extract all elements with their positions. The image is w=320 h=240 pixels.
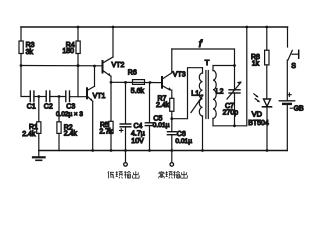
wire C2 to C3 bbox=[50, 96, 66, 98]
wire top rail bbox=[21, 26, 288, 28]
wire emitter row bbox=[111, 81, 162, 83]
node tank top junction bbox=[233, 64, 236, 67]
svg-text:VT2: VT2 bbox=[112, 62, 125, 69]
node R7 bottom / L1 link bbox=[170, 117, 173, 120]
node C4 rail crossing bbox=[124, 149, 127, 152]
svg-text:BT504: BT504 bbox=[248, 120, 269, 127]
wire left border lower bbox=[20, 54, 22, 66]
node L1 rail bbox=[201, 149, 204, 152]
svg-text:GB: GB bbox=[294, 106, 304, 113]
svg-text:0.02µ × 3: 0.02µ × 3 bbox=[56, 111, 83, 118]
battery GB bbox=[279, 93, 304, 151]
wire base row A bbox=[21, 65, 103, 67]
svg-text:3k: 3k bbox=[26, 49, 34, 56]
wire bottom rail bbox=[39, 150, 287, 152]
svg-text:1k: 1k bbox=[252, 61, 260, 68]
wire VT2 collector to rail bbox=[112, 27, 114, 57]
inductor L2 bbox=[213, 71, 224, 119]
resistor R7 bbox=[156, 90, 174, 132]
svg-text:2.4k: 2.4k bbox=[64, 130, 78, 137]
wire C1 to C2 bbox=[34, 96, 45, 98]
node VT1 emitter rail bbox=[91, 149, 94, 152]
switch S bbox=[288, 27, 299, 70]
resistor R6 bbox=[128, 70, 145, 95]
svg-text:270p: 270p bbox=[223, 110, 239, 117]
label high frequency output (Chinese) bbox=[158, 171, 187, 178]
light arrows into VD bbox=[254, 94, 260, 102]
wire VT3 collector up bbox=[171, 49, 173, 73]
transformer core bbox=[206, 71, 208, 119]
node VT2 collector rail bbox=[112, 26, 115, 29]
node VT1 collector junction bbox=[93, 65, 96, 68]
node C4 top bbox=[124, 81, 127, 84]
svg-text:2.4k: 2.4k bbox=[156, 102, 170, 109]
resistor R5 bbox=[99, 121, 113, 150]
svg-text:180: 180 bbox=[62, 48, 74, 55]
node C6 rail crossing bbox=[170, 149, 173, 152]
node R4 crossing base row bbox=[77, 64, 80, 67]
node R2 top bbox=[58, 95, 61, 98]
svg-text:T: T bbox=[205, 58, 210, 67]
capacitor C4 bbox=[120, 82, 145, 162]
capacitor C1 bbox=[27, 91, 36, 110]
svg-text:S: S bbox=[291, 63, 296, 70]
svg-text:C2: C2 bbox=[44, 103, 53, 110]
label low frequency output (Chinese) bbox=[108, 171, 139, 178]
wire left feedback drop bbox=[21, 66, 29, 97]
node tank bottom junction bbox=[233, 124, 236, 127]
transistor VT1 bbox=[87, 66, 106, 102]
svg-text:C4: C4 bbox=[134, 123, 143, 130]
resistor R2 bbox=[57, 97, 78, 151]
resistor R1 bbox=[22, 97, 41, 151]
diode VD bbox=[248, 99, 271, 151]
svg-text:10V: 10V bbox=[131, 138, 144, 145]
wire left border upper bbox=[20, 27, 22, 41]
svg-text:f: f bbox=[199, 38, 203, 50]
node VD rail bbox=[266, 149, 269, 152]
terminal low freq output bbox=[124, 163, 128, 167]
wire C3 to VT1 base bbox=[70, 96, 87, 98]
svg-text:L2: L2 bbox=[216, 88, 224, 95]
svg-text:C6: C6 bbox=[177, 131, 186, 138]
svg-text:2.4k: 2.4k bbox=[22, 131, 36, 138]
inductor L1 bbox=[191, 68, 202, 151]
svg-text:C1: C1 bbox=[27, 103, 36, 110]
svg-text:L1: L1 bbox=[191, 90, 199, 97]
svg-text:C3: C3 bbox=[66, 103, 75, 110]
capacitor C6 bbox=[167, 131, 192, 162]
node R4 top rail bbox=[77, 26, 80, 29]
ground bbox=[33, 151, 45, 161]
node emitter row left bbox=[110, 81, 113, 84]
terminal high freq output bbox=[170, 163, 174, 167]
resistor R3 bbox=[19, 41, 35, 56]
resistor R8 bbox=[251, 27, 269, 99]
svg-text:4.7µ: 4.7µ bbox=[131, 131, 145, 138]
svg-text:VT1: VT1 bbox=[93, 93, 106, 100]
svg-text:2.7k: 2.7k bbox=[99, 128, 113, 135]
node A (R3 bottom junction) bbox=[20, 64, 23, 67]
wire L1 top link box bbox=[172, 68, 203, 119]
svg-text:5.6k: 5.6k bbox=[131, 88, 145, 95]
svg-text:0.01µ: 0.01µ bbox=[175, 138, 192, 145]
transistor VT3 bbox=[162, 72, 186, 91]
capacitor C5 bbox=[145, 83, 169, 151]
svg-text:VD: VD bbox=[252, 110, 263, 119]
wire L2 top link bbox=[213, 66, 235, 71]
wire L2 bottom bbox=[213, 27, 247, 126]
node tank right rail bbox=[245, 26, 248, 29]
svg-text:VT3: VT3 bbox=[173, 72, 186, 79]
capacitor C3 bbox=[56, 91, 83, 118]
svg-text:R6: R6 bbox=[128, 70, 137, 77]
arrow through L1 bbox=[191, 94, 204, 113]
wire tank top bbox=[172, 49, 235, 66]
capacitor C2 bbox=[44, 91, 53, 110]
wire VT1 emitter to ground rail bbox=[92, 101, 94, 150]
capacitor C7 variable bbox=[223, 66, 242, 126]
svg-text:R1: R1 bbox=[29, 124, 38, 131]
resistor R4 bbox=[62, 27, 80, 97]
node C5 top bbox=[149, 81, 152, 84]
svg-text:0.01µ: 0.01µ bbox=[153, 122, 170, 129]
node R1 top bbox=[37, 95, 40, 98]
node R8 rail bbox=[265, 26, 268, 29]
node R5 rail bbox=[110, 149, 113, 152]
wire VT2 emitter branch bbox=[110, 76, 112, 121]
transistor VT2 bbox=[103, 57, 125, 77]
node C5 rail bbox=[148, 149, 151, 152]
wire switch to battery bbox=[286, 60, 288, 100]
